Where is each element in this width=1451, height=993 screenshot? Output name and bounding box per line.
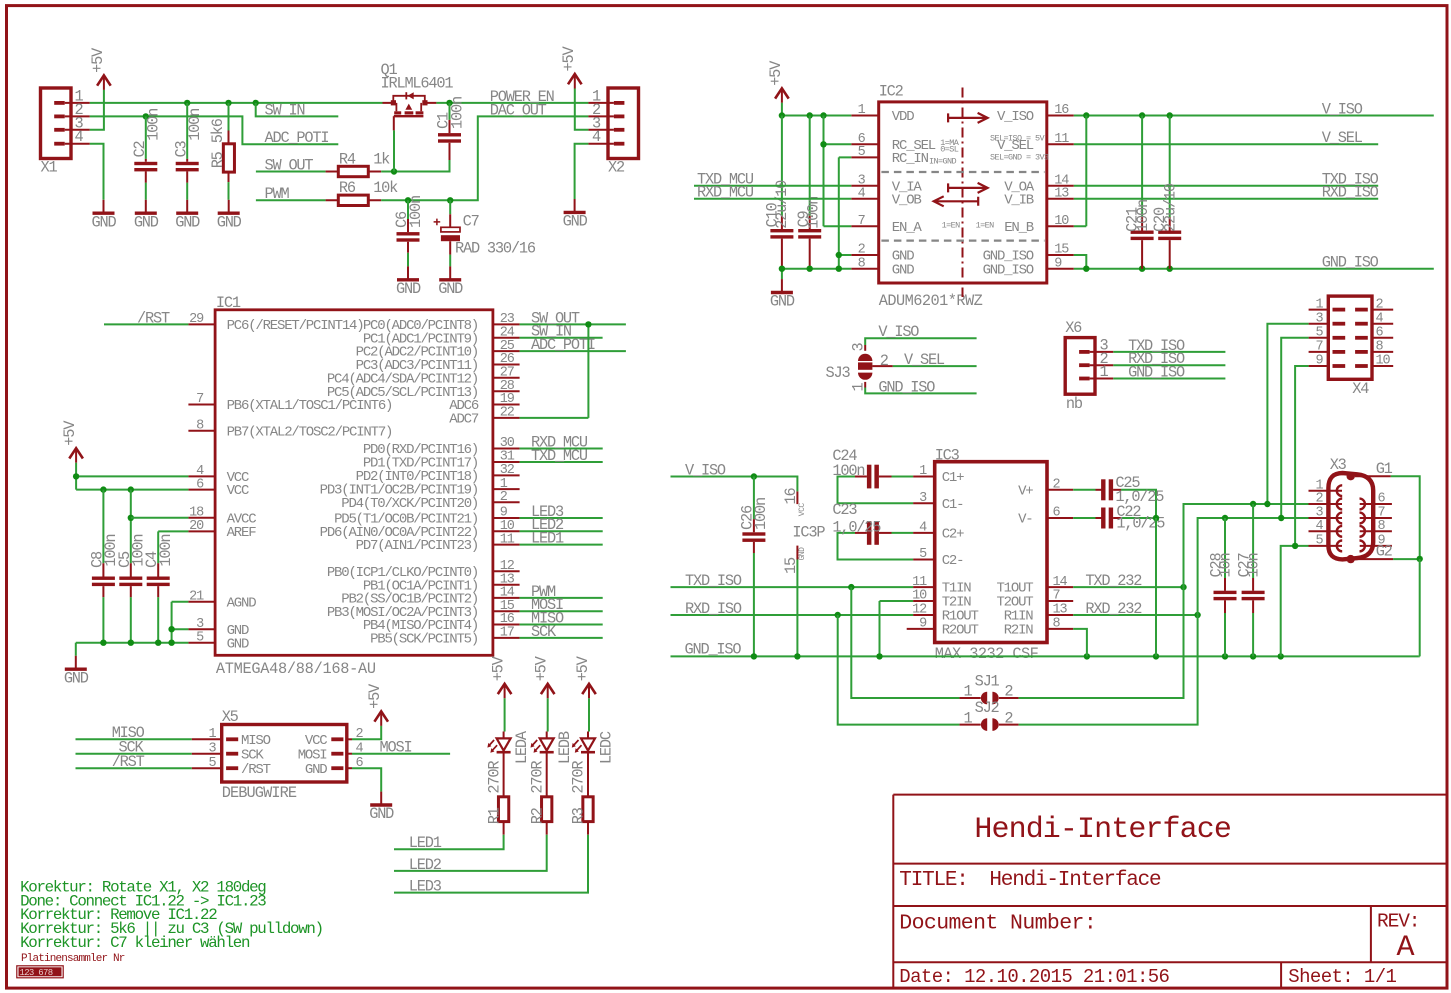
svg-text:1k: 1k xyxy=(373,150,390,168)
wire TXD_232 up to X3.2 row xyxy=(1184,504,1309,587)
svg-text:100n: 100n xyxy=(157,535,175,567)
svg-text:REV:: REV: xyxy=(1377,911,1419,933)
resistor R3 xyxy=(587,756,589,797)
junction PWM-C6 xyxy=(405,197,411,203)
net SW_IN wire at IC1 xyxy=(520,337,603,339)
junction gnd-c26 xyxy=(751,653,757,659)
svg-text:Platinensammler Nr: Platinensammler Nr xyxy=(21,953,125,965)
svg-text:LED1: LED1 xyxy=(409,834,442,852)
svg-text:AGND: AGND xyxy=(227,595,257,611)
svg-text:SCK: SCK xyxy=(531,623,557,641)
net SCK wire at IC1 xyxy=(520,637,603,639)
svg-text:+5V: +5V xyxy=(366,683,384,709)
svg-text:R2: R2 xyxy=(528,807,546,824)
+5V supply at X5 xyxy=(374,711,388,721)
IC2 left pins xyxy=(851,115,878,117)
svg-text:LED3: LED3 xyxy=(409,878,442,896)
IC2 power arrow xyxy=(948,113,988,123)
+5V supply at X1 xyxy=(97,75,111,85)
wire AVCC xyxy=(131,517,189,519)
svg-text:100n: 100n xyxy=(752,498,770,530)
svg-text:10n: 10n xyxy=(1216,554,1234,578)
svg-text:MOSI: MOSI xyxy=(380,739,412,757)
junction viso-enb xyxy=(1083,112,1089,118)
junction gnd-ic3p xyxy=(794,653,800,659)
svg-text:22u/10: 22u/10 xyxy=(773,180,791,229)
ground rail under IC1 xyxy=(76,642,189,644)
svg-text:10n: 10n xyxy=(1245,554,1263,578)
junction gnd-c2225 xyxy=(1153,653,1159,659)
capacitor C27 xyxy=(1252,504,1254,578)
ground at C6 xyxy=(407,266,409,279)
X3 shield pad G1 xyxy=(1347,472,1355,480)
svg-text:IC3P: IC3P xyxy=(792,524,825,542)
svg-text:21: 21 xyxy=(189,590,204,605)
svg-text:+5V: +5V xyxy=(490,655,508,681)
wire X1 pin3 to +5V xyxy=(90,90,104,130)
svg-text:2: 2 xyxy=(1053,478,1061,493)
svg-text:C23: C23 xyxy=(832,501,857,519)
IC1 left pins xyxy=(188,323,215,325)
connector X5 xyxy=(222,725,347,783)
svg-text:1=EN: 1=EN xyxy=(942,220,961,230)
svg-text:5: 5 xyxy=(858,145,866,160)
net RXD_232 wire xyxy=(1073,614,1197,616)
svg-text:TXD_232: TXD_232 xyxy=(1085,572,1142,590)
svg-text:+5V: +5V xyxy=(533,655,551,681)
svg-text:Date: 12.10.2015 21:01:56: Date: 12.10.2015 21:01:56 xyxy=(899,966,1169,988)
IC2 channel divider dashed upper xyxy=(881,171,1044,173)
net MISO wire at IC1 xyxy=(520,624,603,626)
svg-text:Document Number:: Document Number: xyxy=(899,912,1096,936)
svg-text:11: 11 xyxy=(912,575,927,590)
wire R3 to LED3 xyxy=(394,835,588,893)
svg-text:PC6(/RESET/PCINT14): PC6(/RESET/PCINT14) xyxy=(227,318,364,334)
power symbol IC3P pin16 VCC xyxy=(796,491,798,504)
wire RXD_232 up to X3.3 row xyxy=(1198,518,1309,615)
IC3 right pins xyxy=(1047,489,1073,491)
IC2 channel divider dashed lower xyxy=(881,240,1044,242)
junction drain-C1 xyxy=(446,100,452,106)
svg-text:C1-: C1- xyxy=(942,497,964,513)
svg-text:GND: GND xyxy=(305,762,327,778)
IC2 right pins xyxy=(1047,115,1074,117)
junction viso-c20 xyxy=(1167,112,1173,118)
IC3 pin 9 R2OUT xyxy=(907,628,935,630)
net SW_OUT wire at IC1 xyxy=(520,323,626,325)
svg-text:1: 1 xyxy=(919,464,927,479)
junction gnd-agnd xyxy=(168,640,174,646)
junction vdd-rcsel xyxy=(820,112,826,118)
svg-text:SEL=ISO = 5V: SEL=ISO = 5V xyxy=(990,134,1046,144)
svg-text:X6: X6 xyxy=(1065,319,1082,337)
junction gndrail-c10 xyxy=(779,266,785,272)
junction rcsel xyxy=(820,141,826,147)
capacitor C10 xyxy=(781,116,783,216)
svg-text:10: 10 xyxy=(912,589,927,604)
svg-text:/RST: /RST xyxy=(112,753,145,771)
connector X6 xyxy=(1065,338,1095,395)
solder jumper SJ3 xyxy=(858,354,872,361)
svg-text:R2IN: R2IN xyxy=(1004,623,1034,639)
svg-text:RC_IN: RC_IN xyxy=(892,151,929,167)
junction gnd-c8 xyxy=(100,640,106,646)
connector X3 DSUB9 outline xyxy=(1328,473,1373,559)
net TXD_MCU wire at IC2 xyxy=(694,185,851,187)
svg-text:1=EN: 1=EN xyxy=(976,220,995,230)
svg-text:X4: X4 xyxy=(1352,380,1369,398)
wire SJ3 pin2 to V_SEL label xyxy=(872,365,892,367)
svg-text:6: 6 xyxy=(1376,326,1384,341)
svg-text:X2: X2 xyxy=(608,159,625,177)
connector X2 xyxy=(608,88,639,159)
junction rxd232 xyxy=(1194,612,1200,618)
svg-text:R1: R1 xyxy=(485,807,503,824)
junction gndiso-c21 xyxy=(1139,266,1145,272)
net /RST wire at X5 xyxy=(76,767,192,769)
wire X5.2 VCC to +5V xyxy=(352,726,381,739)
wire +5V to LEDC xyxy=(588,698,590,731)
svg-text:GND_ISO: GND_ISO xyxy=(685,641,742,659)
resistor R6 xyxy=(326,199,382,201)
+5V supply at X2 xyxy=(568,74,582,84)
svg-text:VDD: VDD xyxy=(892,109,914,125)
svg-text:C3: C3 xyxy=(172,141,190,158)
net V_ISO rail from IC2.16 xyxy=(1074,115,1434,117)
ground at IC1 xyxy=(75,656,77,669)
wire +5V to LEDA xyxy=(504,698,506,731)
capacitor C21 xyxy=(1141,116,1143,218)
ground at C7 xyxy=(449,266,451,279)
junction x32-x43 xyxy=(1264,501,1270,507)
svg-text:7: 7 xyxy=(858,214,866,229)
X5 left pins xyxy=(226,737,238,741)
svg-text:R2OUT: R2OUT xyxy=(942,623,979,639)
capacitor C20 xyxy=(1169,116,1171,218)
X3 G1 pin wire xyxy=(1355,475,1391,477)
ground at R5 xyxy=(228,200,230,213)
LED LEDC xyxy=(587,732,589,757)
svg-text:+5V: +5V xyxy=(560,46,578,72)
wire X4.5 to X3.3 xyxy=(1281,338,1308,518)
svg-text:100n: 100n xyxy=(407,196,425,228)
svg-text:TXD_MCU: TXD_MCU xyxy=(531,447,588,465)
resistor R5 xyxy=(228,103,230,131)
svg-text:IN=GND: IN=GND xyxy=(929,156,957,166)
junction PWM-C7 xyxy=(447,197,453,203)
wire V+V- caps to GND_ISO xyxy=(1155,518,1157,656)
junction x33-c28 xyxy=(1222,515,1228,521)
net ADC_POTI wire at IC1 xyxy=(520,350,626,352)
svg-text:GND_ISO: GND_ISO xyxy=(1322,254,1379,272)
svg-text:GND: GND xyxy=(770,293,795,311)
junction rcin-gnd2 xyxy=(836,252,842,258)
svg-text:C2-: C2- xyxy=(942,553,964,569)
svg-text:270R: 270R xyxy=(570,761,588,794)
svg-text:1: 1 xyxy=(208,727,216,742)
net RXD_ISO wire at X6 xyxy=(1113,364,1225,366)
svg-text:1: 1 xyxy=(1100,363,1109,381)
svg-text:2: 2 xyxy=(880,352,889,370)
wire Q1 drain to POWER_EN xyxy=(436,102,588,104)
junction gate-R4-C1 xyxy=(391,168,397,174)
wire SJ2.2 to RXD_232 xyxy=(999,724,1019,726)
svg-text:IC3: IC3 xyxy=(935,447,960,465)
svg-text:R4: R4 xyxy=(339,150,356,168)
X3 left pins xyxy=(1309,490,1343,492)
wire +5V to VCC pins xyxy=(76,463,188,490)
net TXD_232 wire xyxy=(1073,586,1183,588)
wire IC2.15 to GND_ISO xyxy=(1074,255,1087,269)
svg-text:4: 4 xyxy=(858,186,866,201)
svg-text:R5: R5 xyxy=(209,151,227,168)
svg-text:100n: 100n xyxy=(145,109,163,141)
svg-text:C7: C7 xyxy=(463,212,479,230)
svg-text:6: 6 xyxy=(1378,492,1386,507)
svg-text:GND: GND xyxy=(134,213,159,231)
wire gnd stem IC2 xyxy=(781,269,783,279)
capacitor C22 xyxy=(1073,517,1095,519)
svg-text:LEDC: LEDC xyxy=(597,731,615,764)
svg-text:100n: 100n xyxy=(448,97,466,129)
svg-text:ATMEGA48/88/168-AU: ATMEGA48/88/168-AU xyxy=(216,660,376,678)
svg-text:5k6: 5k6 xyxy=(209,118,227,143)
svg-text:ADC7: ADC7 xyxy=(449,412,479,428)
IC1 right pins xyxy=(493,323,520,325)
wire R4 to Q1 gate and C1 xyxy=(381,160,449,172)
connector X4 xyxy=(1328,296,1372,379)
svg-text:5: 5 xyxy=(196,630,204,645)
wire SW_IN label stub xyxy=(256,103,339,117)
svg-text:8: 8 xyxy=(1378,519,1386,534)
capacitor C4 xyxy=(157,531,159,563)
svg-text:GND: GND xyxy=(892,262,914,278)
junction gndrail-c9 xyxy=(807,266,813,272)
junction viso-c21 xyxy=(1139,112,1145,118)
svg-text:/RST: /RST xyxy=(241,762,271,778)
svg-text:DEBUGWIRE: DEBUGWIRE xyxy=(222,784,297,802)
svg-text:Korrektur: C7 kleiner wählen: Korrektur: C7 kleiner wählen xyxy=(20,934,250,952)
junction vcc-c5 xyxy=(128,486,134,492)
svg-text:R6: R6 xyxy=(339,179,356,197)
svg-text:100n: 100n xyxy=(832,462,864,480)
IC2 channel B arrow xyxy=(934,196,979,206)
svg-text:GND: GND xyxy=(563,213,588,231)
svg-text:SJ1: SJ1 xyxy=(975,673,1000,691)
IC IC2 body xyxy=(879,102,1047,283)
svg-text:DAC_OUT: DAC_OUT xyxy=(490,101,547,119)
junction vcc-c8 xyxy=(100,486,106,492)
net MOSI wire at X5 xyxy=(352,753,450,755)
svg-text:LEDA: LEDA xyxy=(513,730,531,764)
svg-text:GND: GND xyxy=(175,213,200,231)
svg-text:G2: G2 xyxy=(1376,543,1393,561)
capacitor C5 xyxy=(130,490,132,564)
junction x32-c27 xyxy=(1250,501,1256,507)
net LED3 wire at IC1 xyxy=(520,517,603,519)
junction gnd-pin10 xyxy=(876,653,882,659)
wire EN_B tie to V_ISO xyxy=(1074,116,1087,227)
svg-text:2: 2 xyxy=(1315,492,1323,507)
wire SJ1.2 to TXD_232 xyxy=(999,697,1019,699)
svg-text:V_ISO: V_ISO xyxy=(685,461,726,479)
+5V supply at IC2 xyxy=(775,88,789,98)
svg-text:IC2: IC2 xyxy=(879,82,904,100)
wire +5V to LEDB xyxy=(547,698,549,731)
svg-text:11: 11 xyxy=(500,532,515,547)
svg-text:3: 3 xyxy=(1315,311,1323,326)
svg-text:8: 8 xyxy=(1053,617,1061,632)
svg-text:GND: GND xyxy=(369,805,394,823)
svg-text:4: 4 xyxy=(75,128,84,146)
junction viso-c26 xyxy=(751,473,757,479)
wire X3.5 to GND_ISO xyxy=(1281,546,1309,657)
svg-text:5: 5 xyxy=(919,547,927,562)
wire IC3.10 to GND_ISO xyxy=(880,601,914,656)
svg-text:X3: X3 xyxy=(1330,456,1347,474)
svg-text:TXD_ISO: TXD_ISO xyxy=(685,572,742,590)
svg-text:GND: GND xyxy=(396,280,421,298)
wire X2 pin3 to +5V xyxy=(575,89,589,130)
solder jumper SJ1 xyxy=(981,692,987,705)
svg-text:C2+: C2+ xyxy=(942,527,964,543)
svg-text:9: 9 xyxy=(919,617,927,632)
svg-text:7: 7 xyxy=(1315,340,1323,355)
svg-text:10: 10 xyxy=(1054,214,1069,229)
barcode label xyxy=(19,967,62,976)
net GND_ISO rail from IC2.9 xyxy=(1074,268,1434,270)
LED LEDA xyxy=(503,732,505,757)
capacitor C8 xyxy=(102,490,104,564)
svg-text:4: 4 xyxy=(919,521,927,536)
net MISO wire at X5 xyxy=(76,738,192,740)
wire X1 pin4 to GND xyxy=(90,144,104,200)
net TXD_ISO wire at IC3 xyxy=(671,586,914,588)
wire G2 down to GND_ISO rail xyxy=(1418,559,1419,657)
svg-text:SJ2: SJ2 xyxy=(975,699,1000,717)
IC2 isolation barrier dash-dot line xyxy=(962,88,964,298)
title block outline xyxy=(893,795,1447,988)
net LED2 wire at IC1 xyxy=(520,530,603,532)
svg-text:Hendi-Interface: Hendi-Interface xyxy=(989,869,1161,892)
junction gnd-c4 xyxy=(155,640,161,646)
svg-text:V_ISO: V_ISO xyxy=(878,323,919,341)
+5V supply at LEDA xyxy=(498,684,512,694)
svg-text:GND_ISO: GND_ISO xyxy=(983,262,1034,278)
X3 right pins xyxy=(1360,503,1392,505)
svg-text:13: 13 xyxy=(1053,603,1068,618)
junction c22-c25 xyxy=(1153,515,1159,521)
junction rail-SWIN-drop xyxy=(253,100,259,106)
ground at X2 xyxy=(574,199,576,212)
svg-text:5: 5 xyxy=(1315,534,1323,549)
junction x33-x45 xyxy=(1278,515,1284,521)
svg-text:G1: G1 xyxy=(1376,460,1393,478)
capacitor C3 xyxy=(186,103,188,159)
IC IC1 body xyxy=(215,310,493,656)
svg-text:GND: GND xyxy=(227,636,249,652)
svg-text:9: 9 xyxy=(1054,256,1062,271)
wire R6 to C6 C7 DAC_OUT xyxy=(381,116,588,200)
junction vcc4 xyxy=(73,473,79,479)
svg-text:29: 29 xyxy=(189,312,204,327)
solder jumper SJ2 xyxy=(981,718,987,731)
svg-text:MAX 3232 CSF: MAX 3232 CSF xyxy=(935,645,1039,663)
junction gndiso-15 xyxy=(1083,266,1089,272)
svg-text:V_SEL: V_SEL xyxy=(1322,129,1363,147)
capacitor C28 xyxy=(1224,518,1226,578)
net V_ISO wire at IC3 xyxy=(671,477,798,492)
ground at IC2 xyxy=(781,279,783,292)
net GND_ISO wire at X6 xyxy=(1113,378,1225,380)
svg-text:16: 16 xyxy=(1054,103,1069,118)
svg-text:13: 13 xyxy=(1054,186,1069,201)
svg-text:123 678: 123 678 xyxy=(20,968,53,978)
capacitor C9 xyxy=(809,116,811,216)
svg-text:RAD 330/16: RAD 330/16 xyxy=(455,239,536,257)
junction avcc-c5 xyxy=(128,515,134,521)
svg-text:ADC_POTI: ADC_POTI xyxy=(265,129,329,147)
svg-text:2: 2 xyxy=(500,490,508,505)
svg-text:4: 4 xyxy=(1315,519,1323,534)
svg-text:EN_A: EN_A xyxy=(892,220,923,236)
svg-text:LED1: LED1 xyxy=(531,530,564,548)
junction x35-x49 xyxy=(1292,543,1298,549)
svg-text:PD4(T0/XCK/PCINT20): PD4(T0/XCK/PCINT20) xyxy=(341,496,478,512)
wire SJ3 pin1 to GND_ISO label xyxy=(864,382,866,388)
svg-text:GND: GND xyxy=(217,213,242,231)
resistor R4 xyxy=(326,171,382,173)
ground rail left of IC2 xyxy=(782,268,851,270)
+5V supply at LEDB xyxy=(541,684,555,694)
svg-text:17: 17 xyxy=(500,626,515,641)
net V_SEL wire xyxy=(1074,143,1378,145)
net RXD_MCU wire at IC1 xyxy=(520,448,603,450)
svg-text:V-: V- xyxy=(1018,512,1032,528)
svg-text:4: 4 xyxy=(1376,311,1384,326)
svg-text:PB5(SCK/PCINT5): PB5(SCK/PCINT5) xyxy=(370,632,478,648)
junction rail-C3 xyxy=(184,100,190,106)
svg-text:/RST: /RST xyxy=(137,309,170,327)
svg-text:RXD_MCU: RXD_MCU xyxy=(697,184,754,202)
svg-text:RXD_ISO: RXD_ISO xyxy=(685,600,742,618)
X3 shield pad G2 xyxy=(1347,555,1355,563)
capacitor C2 xyxy=(145,116,147,158)
capacitor C24 xyxy=(879,476,892,478)
svg-text:14: 14 xyxy=(1053,575,1068,590)
net /RST wire xyxy=(104,323,188,325)
svg-text:ADUM6201*RWZ: ADUM6201*RWZ xyxy=(879,292,983,310)
svg-text:8: 8 xyxy=(858,256,866,271)
svg-text:10k: 10k xyxy=(373,179,398,197)
junction gnd-pin8 xyxy=(1084,653,1090,659)
wire X1 pin2 net xyxy=(90,116,338,144)
junction vdd-c10 xyxy=(779,112,785,118)
wire RC_IN to GND xyxy=(839,157,852,268)
ground at X5 xyxy=(380,792,382,805)
ground at X1 pin4 xyxy=(103,200,105,213)
capacitor C7 polarized xyxy=(449,200,451,214)
wire Q1 gate down xyxy=(393,130,395,171)
connector X1 xyxy=(41,88,72,159)
wire PWM to R6 xyxy=(256,199,326,201)
svg-text:V_IB: V_IB xyxy=(1004,192,1034,208)
svg-text:100n: 100n xyxy=(804,197,822,229)
+5V supply at LEDC xyxy=(582,684,596,694)
svg-text:Hendi-Interface: Hendi-Interface xyxy=(974,813,1231,847)
svg-text:SEL=GND = 3V3: SEL=GND = 3V3 xyxy=(990,152,1049,162)
wire R2 to LED2 xyxy=(394,835,547,871)
